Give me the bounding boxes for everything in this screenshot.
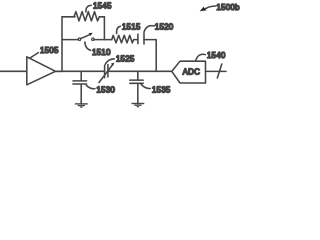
wire: main rail left section bbox=[56, 70, 105, 72]
op-amp 1505 bbox=[27, 57, 56, 85]
svg-text:1500b: 1500b bbox=[216, 3, 240, 12]
resistor 1545 bbox=[74, 12, 99, 21]
label 1540 bbox=[196, 51, 226, 60]
svg-text:1540: 1540 bbox=[207, 51, 226, 60]
label 1515 bbox=[117, 23, 141, 34]
ground for capacitor 1530 bbox=[75, 104, 88, 107]
label 1545 bbox=[86, 2, 112, 12]
bus slash on ADC output bbox=[217, 64, 222, 78]
wire: input line bbox=[1, 70, 27, 72]
svg-text:1515: 1515 bbox=[122, 23, 141, 32]
label 1530 bbox=[86, 85, 115, 94]
svg-text:1535: 1535 bbox=[152, 85, 171, 94]
wire: resistor 1515 to capacitor 1520 bbox=[134, 39, 138, 41]
svg-text:1530: 1530 bbox=[96, 86, 115, 95]
wire: amp output to feedback node bbox=[56, 70, 63, 72]
svg-text:1525: 1525 bbox=[116, 54, 135, 63]
resistor 1515 bbox=[112, 35, 134, 43]
wire: feedback vertical bbox=[61, 17, 63, 72]
label 1520 bbox=[144, 23, 174, 32]
wire: ADC output bbox=[206, 70, 227, 72]
capacitor 1530 bbox=[73, 71, 87, 104]
label 1535 bbox=[141, 84, 171, 94]
label 1525 bbox=[105, 54, 135, 64]
label 1510 bbox=[85, 42, 111, 57]
figure label 1500b bbox=[200, 3, 240, 12]
variable capacitor 1525 bbox=[99, 63, 114, 83]
ground for capacitor 1535 bbox=[132, 104, 145, 107]
wire: main rail right section bbox=[108, 70, 172, 72]
switch 1510 bbox=[78, 33, 94, 41]
wire: capacitor 1520 down to main rail bbox=[144, 40, 156, 72]
ADC 1540 bbox=[172, 61, 206, 83]
wire: top rail left bbox=[62, 16, 75, 18]
svg-text:1520: 1520 bbox=[155, 23, 174, 32]
svg-text:ADC: ADC bbox=[183, 68, 201, 77]
wire: top rail right bbox=[99, 16, 104, 18]
wire: feedback right vertical bbox=[103, 17, 105, 40]
label 1505 bbox=[30, 46, 59, 58]
capacitor 1535 bbox=[130, 71, 143, 103]
wire: switch to resistor 1515 bbox=[94, 39, 112, 41]
capacitor 1520 bbox=[138, 32, 144, 44]
wire: switch line left bbox=[62, 39, 78, 41]
svg-text:1545: 1545 bbox=[93, 2, 112, 11]
svg-text:1505: 1505 bbox=[40, 46, 59, 55]
svg-text:1510: 1510 bbox=[92, 48, 111, 57]
